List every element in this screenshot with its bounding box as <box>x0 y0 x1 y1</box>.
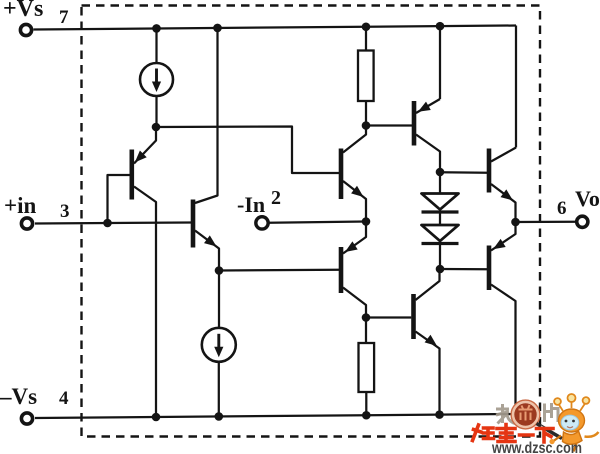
transistor Q3 bar <box>339 149 344 200</box>
dashed IC boundary box <box>82 6 541 437</box>
transistor Q4 collector wire <box>343 288 366 318</box>
wire R1 to node D <box>365 101 367 126</box>
terminal pin 3 +in <box>21 218 32 229</box>
transistor Q5 emitter wire <box>416 99 440 113</box>
transistor Q8 collector wire <box>416 269 440 300</box>
junction on +Vs rail at Q2 collector <box>213 24 222 33</box>
svg-text:4: 4 <box>59 388 69 409</box>
junction on +Vs rail above Q5 emitter <box>436 22 445 31</box>
transistor Q1 collector wire <box>134 187 156 417</box>
wire D2 to node G <box>439 244 441 270</box>
junction Q8 emitter on -Vs rail <box>435 410 444 419</box>
transistor Q7 emitter arrow (PNP) <box>493 239 506 249</box>
wire top supply rail <box>34 26 517 30</box>
node C junction (diff pair emitters) <box>362 217 371 226</box>
watermark logo: gray character PIAN (chip) <box>545 403 560 422</box>
node G junction (D2 / Q7 base / Q8 collector) <box>436 265 445 274</box>
resistor R2 <box>359 343 375 392</box>
wire output node to pin 6 <box>516 221 576 223</box>
terminal pin 4 -Vs <box>21 413 32 424</box>
wire bottom supply rail <box>35 414 516 418</box>
transistor Q8 emitter wire <box>416 332 440 415</box>
transistor Q7 emitter wire <box>491 222 516 251</box>
transistor Q8 bar <box>411 294 416 339</box>
watermark text: WEI KU YI XIA (red) <box>473 425 554 443</box>
wire node B to Q4 base <box>219 269 339 272</box>
diode D1 <box>422 194 459 210</box>
svg-text:3: 3 <box>60 201 70 222</box>
resistor R1 <box>358 51 374 102</box>
node Vo junction <box>511 218 520 227</box>
terminal pin 7 +Vs <box>20 24 31 35</box>
wire node D to Q5 base <box>366 124 412 126</box>
node B junction (Q2 emitter / Q4 base / I2) <box>215 266 224 275</box>
transistor Q7 collector wire <box>491 285 516 416</box>
junction Q1 base on +in rail <box>103 219 112 228</box>
wire node B to current source I2 <box>218 271 220 329</box>
watermark logo: magnifier ring with character XIN inside <box>511 400 540 429</box>
current source I1 <box>140 63 173 96</box>
transistor Q3 collector wire <box>343 126 366 153</box>
node E junction (Q4 collector / R2 / Q8 base) <box>362 313 371 322</box>
svg-text:-In: -In <box>237 192 265 217</box>
wire R2 to -Vs rail <box>365 392 367 415</box>
watermark logo: gray character ZHAO (find) <box>496 404 515 424</box>
wire node E to Q8 base <box>366 316 411 318</box>
wire +Vs rail to Q5 emitter <box>439 26 441 99</box>
wire +Vs rail to current source I1 <box>155 28 157 63</box>
terminal pin 2 -In <box>256 217 268 229</box>
transistor Q8 emitter arrow (NPN) <box>425 335 437 346</box>
transistor Q1 emitter wire <box>134 127 156 164</box>
wire current source I2 to -Vs rail <box>218 362 220 416</box>
wire +Vs rail to Q6 collector <box>515 26 517 148</box>
node F junction (Q5 collector / D1 / Q6 base) <box>436 168 445 177</box>
junction on +Vs rail above current source I1 <box>152 24 161 33</box>
transistor Q1 emitter arrow (PNP) <box>135 151 147 163</box>
svg-text:6: 6 <box>557 198 567 219</box>
wire -In to diff pair node <box>269 222 366 223</box>
wire current source I1 to node A <box>155 96 157 127</box>
junction Q1 collector on -Vs rail <box>152 413 161 422</box>
transistor Q5 bar <box>412 101 417 146</box>
transistor Q2 emitter wire <box>195 231 219 271</box>
wire node A to Q3 base <box>156 127 339 174</box>
transistor Q5 collector wire <box>416 135 440 173</box>
transistor Q6 bar <box>487 149 492 193</box>
transistor Q3 emitter wire <box>343 181 366 222</box>
svg-text:Vo: Vo <box>575 186 600 211</box>
transistor Q6 collector wire <box>491 148 516 162</box>
transistor Q4 emitter arrow (PNP) <box>345 241 358 252</box>
junction on +Vs rail above R1 <box>362 22 371 31</box>
current source I2 <box>202 328 236 362</box>
terminal pin 6 Vo <box>577 216 588 227</box>
watermark logo: magnifier handle <box>537 424 563 439</box>
transistor Q1 base wire <box>108 175 134 223</box>
transistor Q5 emitter arrow (PNP) <box>418 102 431 112</box>
svg-text:7: 7 <box>59 7 69 28</box>
svg-text:–Vs: –Vs <box>0 384 37 409</box>
svg-text:2: 2 <box>271 187 281 209</box>
transistor Q6 emitter arrow (NPN) <box>501 189 514 200</box>
wire +Vs rail to R1 <box>365 27 367 51</box>
transistor Q1 bar <box>130 150 135 200</box>
transistor Q2 collector wire <box>195 28 218 203</box>
transistor Q2 emitter arrow (NPN) <box>204 235 217 246</box>
svg-text:+in: +in <box>4 193 36 218</box>
wire node G to Q7 base <box>440 268 487 271</box>
node D junction (R1 / Q3 collector / Q5 base) <box>362 121 371 130</box>
junction I2 on -Vs rail <box>215 412 224 421</box>
transistor Q4 emitter wire <box>343 222 366 254</box>
node A junction <box>152 123 161 132</box>
watermark mascot: head, face, body <box>549 409 598 452</box>
transistor Q7 bar <box>487 246 492 291</box>
wire D1 to D2 <box>439 212 441 225</box>
transistor Q4 bar <box>339 247 344 293</box>
wire node F to Q6 base <box>440 171 487 174</box>
watermark mascot: antennae with balls <box>554 394 589 411</box>
svg-text:www.dzsc.com: www.dzsc.com <box>491 440 582 454</box>
transistor Q3 emitter arrow (NPN) <box>351 186 363 197</box>
transistor Q2 bar <box>191 200 196 248</box>
junction R2 on -Vs rail <box>362 411 371 420</box>
wire node E to R2 <box>365 318 367 344</box>
svg-text:+Vs: +Vs <box>3 0 43 22</box>
diode D2 <box>422 225 459 241</box>
transistor Q6 emitter wire <box>491 184 516 222</box>
wire node F to D1 <box>439 172 441 194</box>
wire +in rail <box>35 223 192 224</box>
